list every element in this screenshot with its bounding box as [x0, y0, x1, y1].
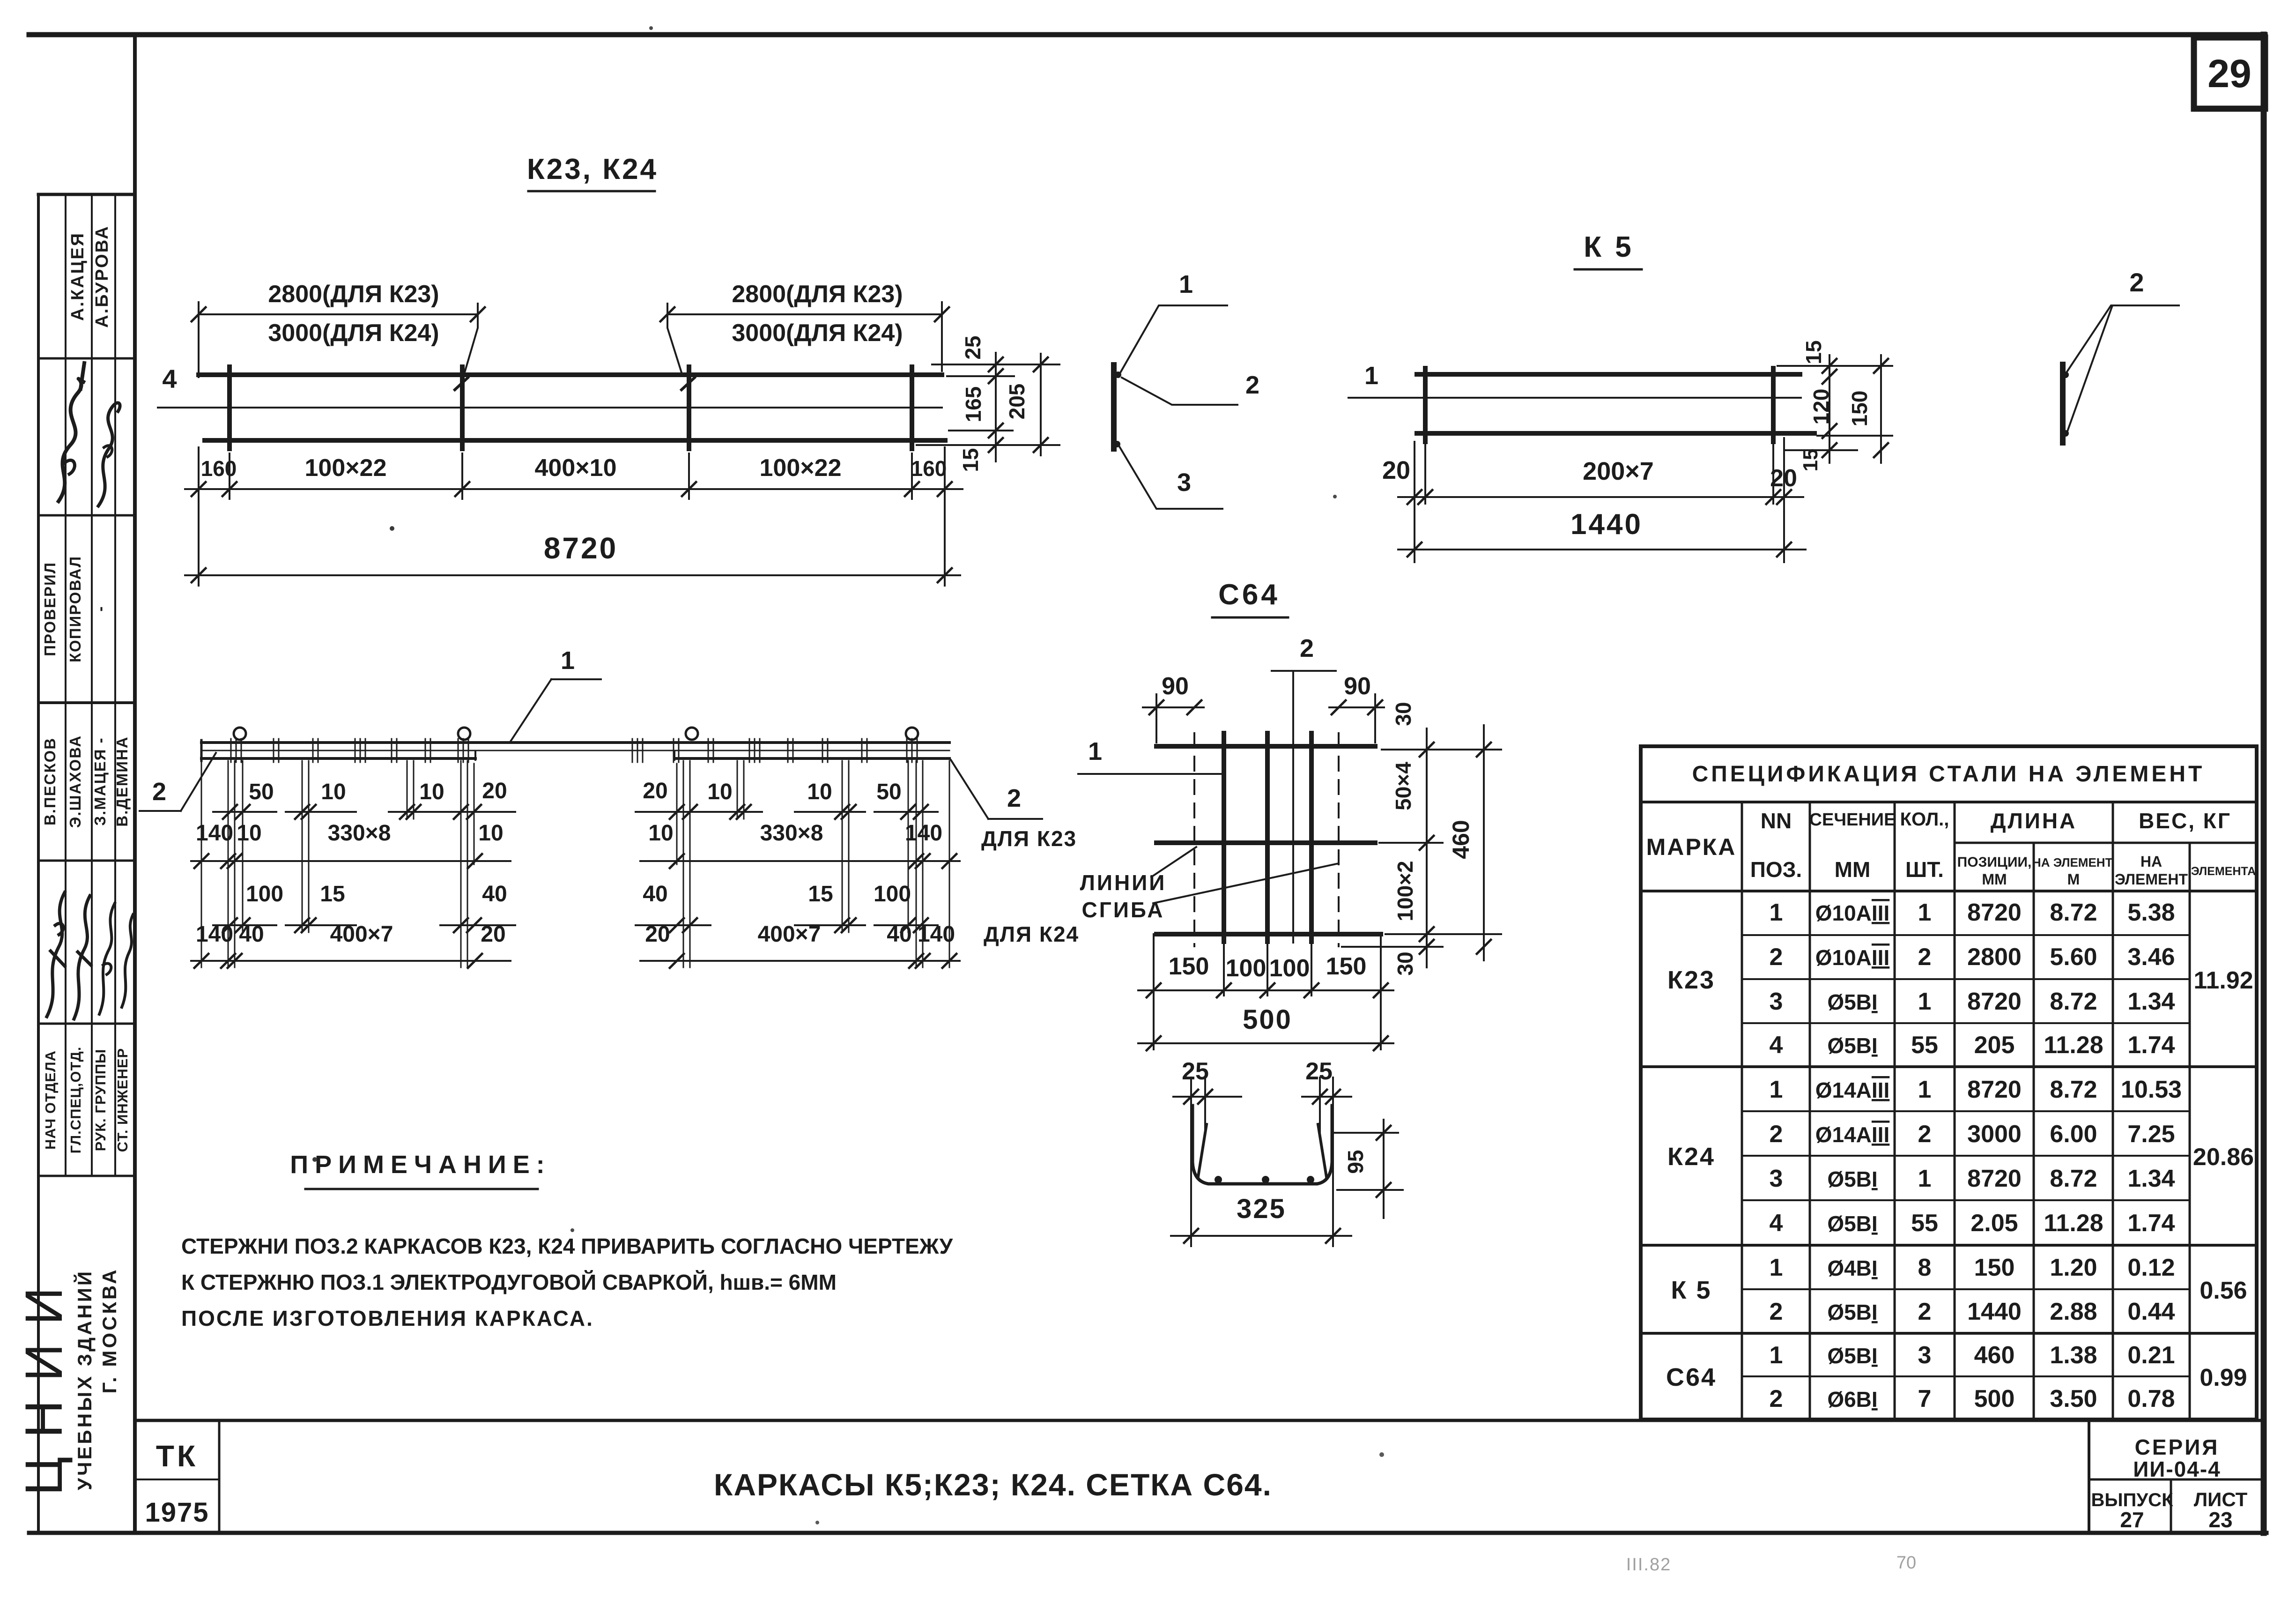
svg-text:15: 15 — [1799, 449, 1822, 472]
svg-text:ПРИМЕЧАНИЕ:: ПРИМЕЧАНИЕ: — [290, 1151, 551, 1179]
border frame top — [29, 32, 2265, 37]
svg-text:Ø5ВI: Ø5ВI — [1827, 1300, 1877, 1324]
svg-text:3000(ДЛЯ К24): 3000(ДЛЯ К24) — [732, 320, 903, 347]
title strip top line — [135, 1419, 2265, 1422]
plan dim row A left (50/10/10/20) — [213, 811, 276, 813]
svg-text:23: 23 — [2208, 1508, 2232, 1532]
K23/K24 thin wire pos.3 — [158, 407, 942, 409]
C64 overall dim 500 — [1138, 1042, 1393, 1044]
right side vertical dims 25/165/205/15 — [932, 364, 1059, 365]
svg-text:100×22: 100×22 — [760, 454, 842, 482]
svg-text:1: 1 — [1770, 1076, 1783, 1103]
svg-text:20: 20 — [1770, 465, 1797, 492]
svg-text:460: 460 — [1448, 820, 1474, 859]
stirrup pos.4 (3) — [687, 367, 691, 449]
svg-text:ЭЛЕМЕНТ: ЭЛЕМЕНТ — [2115, 871, 2188, 888]
svg-text:Ø14АIII: Ø14АIII — [1815, 1122, 1890, 1147]
plan view bar end cap — [200, 740, 203, 761]
svg-text:1: 1 — [1918, 899, 1932, 926]
svg-text:150: 150 — [1169, 953, 1209, 980]
svg-text:2: 2 — [1770, 944, 1783, 971]
stamp row lines — [38, 193, 135, 196]
svg-text:УЧЕБНЫХ ЗДАНИЙ: УЧЕБНЫХ ЗДАНИЙ — [73, 1269, 96, 1490]
stamp row5 signature squiggles — [47, 892, 65, 1017]
svg-text:2.88: 2.88 — [2050, 1298, 2097, 1325]
svg-text:Ø5ВI: Ø5ВI — [1827, 1167, 1877, 1191]
stamp column outer left line — [37, 194, 40, 1533]
plan dim row C right (40/15/100) — [636, 924, 711, 926]
svg-text:8720: 8720 — [1967, 1165, 2022, 1192]
svg-text:150: 150 — [1326, 953, 1367, 980]
svg-text:10: 10 — [707, 780, 732, 804]
svg-text:МАРКА: МАРКА — [1646, 834, 1737, 860]
svg-text:400×10: 400×10 — [535, 454, 617, 482]
svg-text:15: 15 — [1801, 340, 1826, 364]
K5 thin wire — [1348, 397, 1801, 399]
svg-text:160: 160 — [201, 456, 237, 481]
svg-text:Ø10АIII: Ø10АIII — [1815, 901, 1890, 925]
svg-text:Ø14АIII: Ø14АIII — [1815, 1078, 1890, 1102]
svg-text:НА ЭЛЕМЕНТ,: НА ЭЛЕМЕНТ, — [2032, 855, 2115, 869]
svg-text:90: 90 — [1344, 673, 1371, 700]
svg-text:ДЛЯ К23: ДЛЯ К23 — [981, 826, 1077, 851]
svg-text:140: 140 — [196, 922, 233, 947]
svg-text:ПРОВЕРИЛ: ПРОВЕРИЛ — [41, 562, 59, 656]
svg-text:140: 140 — [918, 922, 955, 947]
svg-text:ПОЗИЦИИ,: ПОЗИЦИИ, — [1957, 855, 2032, 870]
leader 1 — [1120, 305, 1227, 373]
C64 fold line right (dashed) — [1338, 733, 1340, 946]
plan view bar top line — [201, 741, 949, 744]
svg-text:8720: 8720 — [1967, 988, 2022, 1015]
spec table header lines — [1641, 801, 2257, 803]
svg-text:20: 20 — [643, 779, 667, 803]
svg-text:10: 10 — [478, 821, 503, 846]
svg-text:20.86: 20.86 — [2193, 1144, 2254, 1171]
svg-text:2: 2 — [1300, 634, 1314, 662]
svg-text:ММ: ММ — [1982, 871, 2007, 888]
K5 stirrup left pos.1 — [1423, 368, 1428, 442]
svg-text:К 5: К 5 — [1584, 231, 1634, 263]
svg-text:100: 100 — [1269, 955, 1310, 982]
svg-text:К23, К24: К23, К24 — [527, 153, 658, 186]
stamp column verticals — [65, 194, 67, 1176]
plan dim row B left (140/10/330x8/10) — [191, 860, 511, 862]
svg-text:2800(ДЛЯ К23): 2800(ДЛЯ К23) — [268, 281, 439, 308]
svg-text:ЦНИИ: ЦНИИ — [15, 1269, 73, 1496]
plan dim row C left (100/15/40) — [213, 924, 276, 926]
svg-text:3000: 3000 — [1967, 1121, 2022, 1148]
C64 bottom bar — [1156, 932, 1381, 936]
svg-text:11.92: 11.92 — [2193, 967, 2253, 994]
svg-text:7: 7 — [1918, 1385, 1932, 1412]
svg-text:100×22: 100×22 — [305, 454, 387, 482]
svg-text:3.50: 3.50 — [2050, 1385, 2097, 1412]
svg-text:205: 205 — [1974, 1032, 2015, 1059]
svg-text:Ø6ВI: Ø6ВI — [1827, 1387, 1877, 1412]
svg-text:10: 10 — [237, 821, 261, 846]
svg-text:1.34: 1.34 — [2127, 988, 2175, 1015]
svg-text:205: 205 — [1005, 384, 1029, 420]
svg-text:29: 29 — [2207, 52, 2251, 96]
svg-text:2800(ДЛЯ К23): 2800(ДЛЯ К23) — [732, 281, 903, 308]
svg-text:20: 20 — [645, 922, 670, 947]
svg-text:СТ. ИНЖЕНЕР: СТ. ИНЖЕНЕР — [114, 1048, 131, 1152]
svg-text:10.53: 10.53 — [2121, 1076, 2182, 1103]
svg-text:В.ПЕСКОВ: В.ПЕСКОВ — [41, 737, 59, 825]
svg-text:200×7: 200×7 — [1583, 457, 1654, 485]
svg-text:ПОЗ.: ПОЗ. — [1750, 857, 1802, 882]
plan view bar wire (thin) — [201, 750, 949, 751]
svg-text:ДЛЯ К24: ДЛЯ К24 — [984, 922, 1079, 946]
dimension 2800/3000 right — [667, 304, 681, 372]
C64 fold line left (dashed) — [1193, 733, 1195, 946]
svg-text:В.ДЕМИНА: В.ДЕМИНА — [113, 736, 131, 826]
svg-text:120: 120 — [1809, 389, 1833, 425]
K5 stirrup right pos.1 — [1771, 368, 1776, 442]
svg-text:150: 150 — [1974, 1254, 2015, 1281]
svg-text:2800: 2800 — [1967, 944, 2022, 971]
lifting hook circles — [234, 728, 246, 740]
svg-text:3: 3 — [1177, 468, 1191, 497]
C64 vertical bar 1 — [1222, 733, 1226, 942]
spec table outer frame — [1641, 746, 2257, 1419]
C64 vertical bar 2 — [1265, 733, 1270, 942]
svg-text:2: 2 — [1918, 1298, 1932, 1325]
svg-text:1.20: 1.20 — [2050, 1254, 2097, 1281]
svg-text:КАРКАСЫ К5;К23; К24. СЕТКА С6: КАРКАСЫ К5;К23; К24. СЕТКА С64. — [714, 1467, 1272, 1502]
svg-text:ТК: ТК — [156, 1439, 198, 1473]
svg-text:330×8: 330×8 — [328, 821, 391, 846]
svg-text:4: 4 — [1770, 1210, 1783, 1237]
border frame left (main) — [133, 35, 137, 1533]
stirrup pos.4 (1) — [227, 367, 232, 449]
svg-text:Ø5ВI: Ø5ВI — [1827, 990, 1877, 1014]
svg-text:2: 2 — [1245, 371, 1259, 399]
stamp row2 signature squiggles — [59, 379, 83, 501]
svg-text:40: 40 — [239, 922, 264, 947]
svg-text:8720: 8720 — [544, 531, 618, 565]
svg-text:15: 15 — [958, 448, 983, 472]
svg-text:К 5: К 5 — [1671, 1276, 1712, 1304]
svg-text:500: 500 — [1974, 1385, 2015, 1412]
svg-text:100: 100 — [246, 882, 283, 907]
svg-text:100: 100 — [874, 882, 911, 907]
svg-text:Ø5ВI: Ø5ВI — [1827, 1344, 1877, 1368]
K5 top bar pos.2 — [1417, 372, 1800, 377]
svg-text:А.БУРОВА: А.БУРОВА — [92, 225, 112, 327]
C64 vertical bar 3 — [1309, 733, 1314, 942]
svg-text:К24: К24 — [1667, 1143, 1715, 1171]
svg-text:СПЕЦИФИКАЦИЯ СТАЛИ НА ЭЛЕМЕНТ: СПЕЦИФИКАЦИЯ СТАЛИ НА ЭЛЕМЕНТ — [1692, 762, 2205, 787]
svg-text:5.38: 5.38 — [2127, 899, 2175, 926]
svg-text:20: 20 — [482, 779, 507, 803]
TK box — [218, 1420, 221, 1533]
svg-text:100×2: 100×2 — [1393, 861, 1417, 921]
svg-text:1.38: 1.38 — [2050, 1342, 2097, 1369]
svg-text:2: 2 — [1007, 784, 1021, 812]
svg-text:8.72: 8.72 — [2050, 1165, 2097, 1192]
border frame bottom — [29, 1531, 2266, 1535]
svg-text:40: 40 — [482, 882, 507, 907]
svg-text:1: 1 — [1179, 270, 1193, 298]
U-section dim 325 — [1171, 1235, 1351, 1237]
plan view bar bottom plate left segment — [201, 757, 475, 760]
svg-text:0.78: 0.78 — [2127, 1385, 2175, 1412]
svg-text:8720: 8720 — [1967, 1076, 2022, 1103]
svg-text:ЭЛЕМЕНТА: ЭЛЕМЕНТА — [2191, 865, 2256, 878]
U-section profile — [1192, 1106, 1332, 1184]
svg-text:3000(ДЛЯ К24): 3000(ДЛЯ К24) — [268, 320, 439, 347]
svg-text:2: 2 — [1918, 1121, 1932, 1148]
K5 overall dim 1440 — [1398, 549, 1806, 550]
C64 dim 90 right — [1374, 694, 1376, 743]
svg-text:СЕРИЯ: СЕРИЯ — [2135, 1435, 2220, 1459]
svg-text:Ø10АIII: Ø10АIII — [1815, 945, 1890, 970]
C64 right dims 30/50x4/460/100x2/30 — [1382, 749, 1501, 750]
svg-text:330×8: 330×8 — [760, 821, 823, 846]
svg-text:3: 3 — [1770, 988, 1783, 1015]
weld marks — [455, 378, 468, 390]
svg-text:1440: 1440 — [1570, 508, 1643, 541]
svg-text:КОЛ.,: КОЛ., — [1900, 809, 1949, 830]
svg-text:ІІІ.82: ІІІ.82 — [1626, 1555, 1672, 1575]
svg-text:НА: НА — [2140, 853, 2162, 870]
svg-text:К СТЕРЖНЮ ПОЗ.1 ЭЛЕКТРОДУГОВОЙ: К СТЕРЖНЮ ПОЗ.1 ЭЛЕКТРОДУГОВОЙ СВАРКОЙ, … — [181, 1270, 837, 1294]
svg-text:ИИ-04-4: ИИ-04-4 — [2133, 1457, 2221, 1481]
svg-text:55: 55 — [1911, 1032, 1938, 1059]
plan dim row D right (20/400x7/40/140) для К24 — [640, 960, 960, 962]
svg-text:ММ: ММ — [1835, 857, 1871, 882]
svg-text:400×7: 400×7 — [758, 922, 821, 947]
overall dimension 8720 — [185, 574, 960, 576]
svg-text:50: 50 — [876, 780, 901, 804]
svg-text:8.72: 8.72 — [2050, 988, 2097, 1015]
svg-text:КОПИРОВАЛ: КОПИРОВАЛ — [67, 556, 84, 662]
svg-text:2: 2 — [1918, 944, 1932, 971]
svg-text:NN: NN — [1761, 809, 1792, 833]
svg-text:Г. МОСКВА: Г. МОСКВА — [98, 1267, 120, 1393]
svg-text:325: 325 — [1237, 1194, 1286, 1224]
svg-text:6.00: 6.00 — [2050, 1121, 2097, 1148]
svg-text:165: 165 — [961, 386, 985, 423]
svg-text:2.05: 2.05 — [1970, 1210, 2018, 1237]
svg-text:55: 55 — [1911, 1210, 1938, 1237]
svg-text:3: 3 — [1918, 1342, 1932, 1369]
U-section wire dots — [1215, 1176, 1222, 1183]
plan view bar bottom plate right segment — [674, 757, 949, 760]
svg-text:А.КАЦЕЯ: А.КАЦЕЯ — [68, 232, 88, 321]
svg-text:15: 15 — [320, 882, 345, 907]
svg-text:М: М — [2067, 871, 2080, 888]
K5 cross-section bar — [2060, 364, 2066, 443]
weld tick groups on bar — [230, 739, 232, 762]
svg-text:1440: 1440 — [1967, 1298, 2022, 1325]
svg-text:ЛИНИИ: ЛИНИИ — [1080, 870, 1167, 895]
C64 middle bar — [1156, 840, 1375, 845]
C64 dim 90 left — [1155, 694, 1157, 743]
svg-text:0.21: 0.21 — [2127, 1342, 2175, 1369]
spec table row lines — [1742, 934, 2190, 936]
svg-text:400×7: 400×7 — [330, 922, 393, 947]
svg-text:10: 10 — [807, 780, 832, 804]
stirrup pos.4 (2) — [460, 367, 465, 449]
svg-text:0.56: 0.56 — [2200, 1277, 2247, 1304]
C64 bottom dims 150/100/100/150 — [1153, 934, 1155, 1049]
leader 3 — [1118, 445, 1222, 509]
U-section dim 95 — [1335, 1132, 1398, 1134]
svg-text:Ø5ВI: Ø5ВI — [1827, 1033, 1877, 1058]
K23/K24 bottom bar pos.3a — [205, 438, 945, 443]
svg-text:90: 90 — [1162, 673, 1189, 700]
K5 bottom dims 20/200x7/20 — [1414, 442, 1415, 562]
svg-text:ШТ.: ШТ. — [1905, 857, 1944, 882]
svg-text:3: 3 — [1770, 1165, 1783, 1192]
svg-text:50×4: 50×4 — [1391, 762, 1415, 810]
svg-text:10: 10 — [321, 780, 346, 804]
svg-text:0.12: 0.12 — [2127, 1254, 2175, 1281]
plan dim row D left (140/40/400x7/20) — [191, 960, 511, 962]
svg-text:20: 20 — [481, 922, 505, 947]
svg-text:ГЛ.СПЕЦ,ОТД.: ГЛ.СПЕЦ,ОТД. — [67, 1047, 84, 1154]
svg-text:50: 50 — [249, 780, 274, 804]
svg-text:СГИБА: СГИБА — [1082, 898, 1165, 922]
svg-text:3.46: 3.46 — [2127, 944, 2175, 971]
svg-text:40: 40 — [643, 882, 667, 907]
svg-text:1: 1 — [1918, 1076, 1932, 1103]
svg-text:70: 70 — [1896, 1553, 1916, 1573]
svg-text:1: 1 — [1770, 899, 1783, 926]
svg-text:40: 40 — [887, 922, 911, 947]
svg-text:27: 27 — [2120, 1508, 2144, 1532]
svg-text:0.99: 0.99 — [2200, 1364, 2247, 1391]
svg-text:11.28: 11.28 — [2044, 1032, 2103, 1059]
svg-text:8.72: 8.72 — [2050, 1076, 2097, 1103]
svg-text:1.74: 1.74 — [2127, 1032, 2175, 1059]
svg-text:1: 1 — [1918, 1165, 1932, 1192]
svg-text:1: 1 — [1364, 362, 1378, 390]
svg-text:160: 160 — [911, 456, 947, 481]
border frame right — [2261, 35, 2267, 1533]
svg-text:140: 140 — [905, 821, 942, 846]
svg-text:5.60: 5.60 — [2050, 944, 2097, 971]
svg-text:2: 2 — [1770, 1121, 1783, 1148]
svg-text:30: 30 — [1393, 951, 1417, 975]
svg-text:Ø5ВI: Ø5ВI — [1827, 1211, 1877, 1236]
svg-text:Э.ШАХОВА: Э.ШАХОВА — [67, 735, 84, 828]
plan dim extension lines (left block) — [201, 761, 202, 967]
svg-text:ЛИСТ: ЛИСТ — [2194, 1488, 2248, 1510]
plan dim row A right (20/10/10/50) — [636, 811, 711, 813]
svg-text:ДЛИНА: ДЛИНА — [1991, 809, 2077, 833]
svg-text:1.34: 1.34 — [2127, 1165, 2175, 1192]
svg-text:95: 95 — [1343, 1150, 1368, 1174]
K23/K24 top bar pos.1 — [199, 372, 942, 377]
plan dim row B right (10/330x8/140) для К23 — [640, 860, 960, 862]
svg-text:8720: 8720 — [1967, 899, 2022, 926]
svg-text:1: 1 — [1770, 1342, 1783, 1369]
scan specks — [390, 526, 394, 531]
svg-text:ПОСЛЕ ИЗГОТОВЛЕНИЯ КАРКАСА.: ПОСЛЕ ИЗГОТОВЛЕНИЯ КАРКАСА. — [181, 1306, 594, 1330]
svg-text:100: 100 — [1226, 955, 1267, 982]
svg-text:10: 10 — [648, 821, 673, 846]
svg-text:1: 1 — [1088, 737, 1102, 765]
K23/K24 cross-section bar — [1111, 365, 1117, 449]
stirrup pos.4 (4) — [910, 367, 914, 449]
svg-text:15: 15 — [808, 882, 833, 907]
svg-text:СЕЧЕНИЕ: СЕЧЕНИЕ — [1809, 810, 1896, 830]
svg-text:Ø4ВI: Ø4ВI — [1827, 1256, 1877, 1280]
svg-text:8: 8 — [1918, 1254, 1932, 1281]
svg-text:С64: С64 — [1218, 579, 1280, 611]
svg-text:10: 10 — [419, 780, 444, 804]
svg-text:НАЧ ОТДЕЛА: НАЧ ОТДЕЛА — [42, 1050, 59, 1150]
svg-text:1: 1 — [1918, 988, 1932, 1015]
K5 right dims 15/120/150/15 — [1778, 365, 1892, 367]
series box — [2088, 1420, 2090, 1533]
dimension 2800/3000 left — [198, 302, 200, 377]
C64 top bar — [1156, 744, 1375, 749]
svg-text:7.25: 7.25 — [2127, 1121, 2175, 1148]
svg-text:2: 2 — [1770, 1385, 1783, 1412]
svg-text:С64: С64 — [1666, 1363, 1717, 1391]
svg-text:11.28: 11.28 — [2044, 1210, 2103, 1237]
svg-text:2: 2 — [152, 778, 166, 806]
svg-text:1.74: 1.74 — [2127, 1210, 2175, 1237]
svg-text:150: 150 — [1847, 391, 1872, 427]
svg-text:25: 25 — [961, 335, 985, 359]
plan dim extension lines (right block) — [949, 761, 950, 967]
svg-text:1975: 1975 — [145, 1497, 209, 1528]
svg-text:460: 460 — [1974, 1342, 2015, 1369]
svg-text:ВЕС, КГ: ВЕС, КГ — [2139, 809, 2231, 833]
svg-text:4: 4 — [1770, 1032, 1783, 1059]
svg-text:1: 1 — [561, 646, 575, 675]
spec table column lines — [1741, 802, 1743, 1419]
svg-text:20: 20 — [1382, 456, 1410, 484]
svg-text:-: - — [91, 607, 109, 612]
svg-text:РУК. ГРУППЫ: РУК. ГРУППЫ — [92, 1049, 109, 1152]
svg-text:8.72: 8.72 — [2050, 899, 2097, 926]
svg-text:500: 500 — [1243, 1004, 1292, 1035]
K5 bottom bar pos.2 — [1417, 431, 1815, 436]
svg-text:З.МАЦЕЯ -: З.МАЦЕЯ - — [91, 737, 109, 825]
svg-text:К23: К23 — [1667, 966, 1715, 994]
svg-text:0.44: 0.44 — [2127, 1298, 2175, 1325]
svg-text:30: 30 — [1391, 702, 1415, 726]
svg-text:2: 2 — [2129, 267, 2144, 297]
svg-text:140: 140 — [196, 821, 233, 846]
svg-text:1: 1 — [1770, 1254, 1783, 1281]
sheet number box — [2194, 37, 2265, 109]
svg-text:2: 2 — [1770, 1298, 1783, 1325]
bottom dim chain 160/100x22/400x10/100x22/160 — [198, 447, 200, 586]
leader 2 — [1122, 378, 1237, 405]
svg-text:4: 4 — [162, 364, 177, 394]
svg-text:СТЕРЖНИ ПОЗ.2 КАРКАСОВ К23, К2: СТЕРЖНИ ПОЗ.2 КАРКАСОВ К23, К24 ПРИВАРИТ… — [181, 1234, 954, 1258]
K5 section leader 2 — [2066, 305, 2179, 374]
